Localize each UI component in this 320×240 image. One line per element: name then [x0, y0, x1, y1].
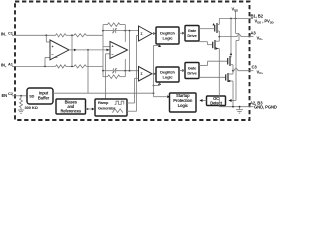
svg-text:Ramp: Ramp [98, 100, 109, 105]
svg-text:Logic: Logic [162, 35, 173, 40]
svg-text:EN: EN [2, 93, 8, 98]
svg-text:SD: SD [29, 94, 34, 98]
svg-text:Drive: Drive [187, 33, 197, 38]
svg-text:Logic: Logic [178, 103, 189, 108]
svg-text:Drive: Drive [187, 70, 197, 75]
svg-text:Logic: Logic [162, 74, 173, 79]
svg-text:Buffer: Buffer [38, 96, 50, 101]
svg-text:Σ: Σ [141, 72, 143, 76]
svg-text:Generator: Generator [98, 105, 116, 110]
svg-text:+: + [52, 45, 54, 49]
svg-text:Σ: Σ [141, 32, 143, 36]
svg-text:GND, PGND: GND, PGND [254, 105, 277, 110]
svg-text:Detect: Detect [210, 100, 222, 105]
svg-text:+: + [112, 45, 114, 49]
svg-text:References: References [60, 108, 81, 113]
svg-text:300 KΩ: 300 KΩ [25, 105, 39, 110]
